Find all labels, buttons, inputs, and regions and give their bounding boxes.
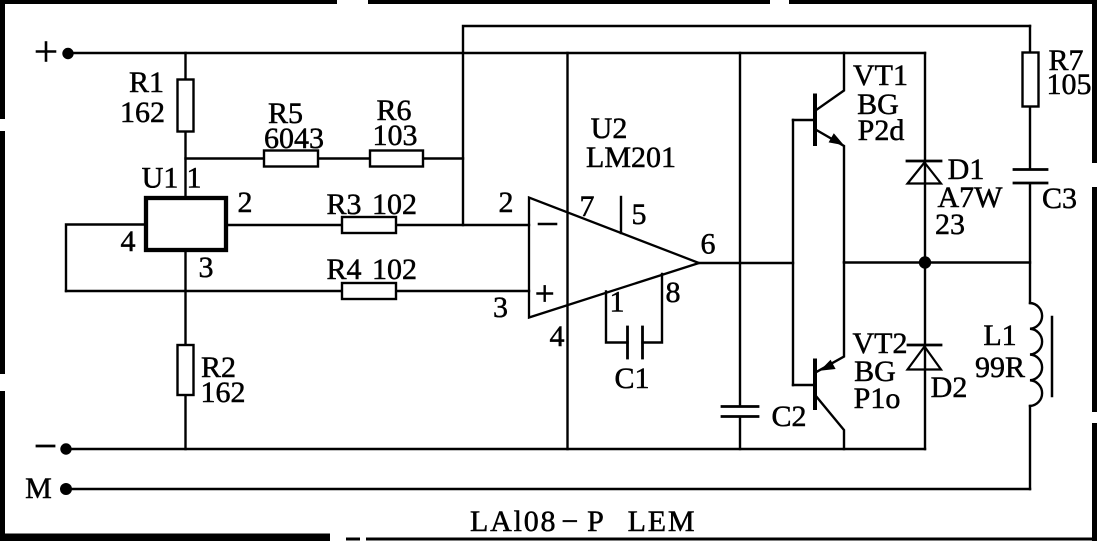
wire M rail — [66, 488, 1030, 490]
resistor R3 — [342, 217, 396, 233]
svg-text:23: 23 — [935, 208, 965, 241]
wire R5 R6 row — [186, 157, 464, 159]
node + terminal dot — [62, 48, 73, 59]
wire C2 vertical upper — [739, 53, 741, 406]
svg-text:6043: 6043 — [264, 122, 324, 155]
wire D1 D2 vertical — [924, 53, 926, 449]
svg-text:2: 2 — [238, 186, 253, 219]
wire minus rail — [66, 448, 925, 450]
svg-text:162: 162 — [120, 96, 165, 129]
svg-text:LM201: LM201 — [586, 141, 676, 174]
svg-text:105: 105 — [1047, 68, 1092, 101]
wire VT2 collector — [816, 396, 845, 450]
wire U1 pin4 bend — [66, 225, 146, 292]
transistor Q2 VT2 base bar — [813, 361, 817, 409]
op-amp U2 triangle — [529, 198, 699, 318]
svg-text:4: 4 — [550, 320, 565, 353]
resistor R5 — [264, 151, 318, 167]
wire R4 row to op-amp plus — [66, 290, 529, 292]
wire op-amp pin1 lead — [606, 292, 628, 343]
wire inner top feedback — [463, 26, 1030, 225]
wire VT1 emitter — [816, 130, 845, 263]
resistor R6 — [370, 151, 423, 167]
svg-text:5: 5 — [632, 198, 647, 231]
transistor Q1 VT1 base bar — [813, 96, 817, 145]
transistor Q2 VT2 emitter arrow — [820, 360, 836, 371]
wire VT1 collector — [816, 53, 845, 111]
inductor L1 coil — [1030, 303, 1042, 406]
svg-text:L1: L1 — [983, 319, 1016, 352]
wire output node row — [844, 261, 1030, 263]
op-amp minus input sign — [539, 223, 556, 226]
svg-text:R1: R1 — [129, 66, 164, 99]
svg-text:C2: C2 — [771, 400, 806, 433]
plus terminal symbol — [37, 43, 55, 61]
svg-text:3: 3 — [493, 291, 508, 324]
svg-text:7: 7 — [580, 190, 595, 223]
wire top + rail — [68, 52, 925, 54]
capacitor C1 — [628, 327, 643, 358]
svg-text:R4: R4 — [326, 253, 361, 286]
svg-text:4: 4 — [121, 225, 136, 258]
capacitor C3 — [1014, 170, 1047, 184]
wire op-amp pin7 pin4 vertical — [566, 53, 568, 449]
diode D1 — [907, 161, 941, 184]
wire op-amp pin8 lead — [643, 274, 663, 343]
resistor R1 — [178, 80, 194, 132]
svg-text:8: 8 — [666, 276, 681, 309]
svg-text:162: 162 — [201, 376, 246, 409]
svg-text:R3: R3 — [326, 188, 361, 221]
svg-text:C3: C3 — [1042, 182, 1077, 215]
wire U1 pin3 down — [184, 250, 186, 449]
svg-text:D2: D2 — [931, 371, 968, 404]
wire VT2 base lead — [793, 384, 813, 386]
resistor R2 — [178, 345, 194, 395]
svg-text:1: 1 — [187, 162, 202, 195]
svg-text:99R: 99R — [975, 351, 1025, 384]
wire R7 C3 vertical upper — [1029, 26, 1031, 169]
node output junction dot — [919, 256, 931, 268]
svg-text:C1: C1 — [614, 362, 649, 395]
svg-text:2: 2 — [499, 186, 514, 219]
svg-text:P2d: P2d — [858, 114, 905, 147]
minus terminal symbol — [37, 445, 54, 448]
node M terminal dot — [60, 483, 72, 495]
svg-text:102: 102 — [372, 253, 417, 286]
wire L1 bottom lead — [1029, 406, 1031, 489]
resistor R4 — [342, 283, 396, 299]
svg-text:102: 102 — [372, 188, 417, 221]
svg-text:U1: U1 — [142, 162, 179, 195]
wire op-amp pin5 stub — [620, 197, 622, 233]
wire transistor base vertical — [792, 120, 794, 385]
capacitor C2 — [722, 407, 758, 417]
op-amp plus input sign — [538, 286, 553, 300]
wire VT2 emitter — [816, 263, 845, 373]
wire VT1 base lead — [793, 119, 813, 121]
IC U1 box — [146, 198, 226, 250]
svg-text:6: 6 — [701, 228, 716, 261]
wire U1 pin2 to op-amp — [226, 224, 529, 226]
diode D2 — [908, 345, 942, 370]
wire R1 branch — [184, 53, 186, 198]
svg-text:1: 1 — [610, 286, 625, 319]
wire C2 vertical lower — [739, 417, 741, 449]
resistor R7 — [1023, 53, 1039, 107]
inductor L1 core — [1051, 317, 1054, 396]
wire op-amp pin6 output — [699, 262, 793, 264]
svg-text:103: 103 — [373, 119, 418, 152]
svg-text:M: M — [25, 472, 52, 505]
wire C3 to node — [1029, 184, 1031, 303]
svg-text:3: 3 — [199, 251, 214, 284]
svg-text:P1o: P1o — [854, 382, 901, 415]
transistor Q1 VT1 emitter arrow — [829, 133, 844, 145]
node minus terminal dot — [60, 443, 71, 454]
